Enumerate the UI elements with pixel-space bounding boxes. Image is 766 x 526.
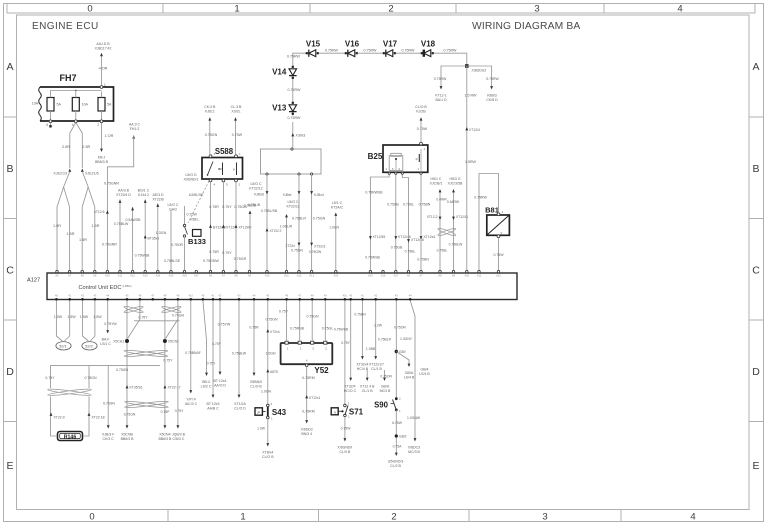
svg-text:V13: V13 [272, 104, 287, 113]
svg-text:A10: A10 [464, 274, 469, 278]
svg-text:o: o [233, 168, 235, 172]
fuse FH7/3 5A [98, 92, 112, 122]
svg-text:BB6/3 B: BB6/3 B [158, 437, 172, 441]
svg-text:CL/1 B: CL/1 B [371, 367, 382, 371]
wire S43 down [257, 419, 274, 459]
svg-text:0.75OR: 0.75OR [380, 375, 392, 379]
wire relay top to V13 [288, 116, 306, 148]
resistor R146 [58, 432, 83, 441]
wire ECU A-pin col 120 [114, 189, 132, 272]
pin FH7 bottom 2 [97, 120, 103, 127]
svg-text:A: A [6, 61, 13, 73]
svg-text:IL75W: IL75W [392, 421, 403, 425]
svg-text:D: D [6, 366, 14, 378]
svg-text:A6: A6 [55, 274, 59, 278]
svg-text:0: 0 [87, 3, 92, 14]
svg-text:0.75BLSE: 0.75BLSE [164, 259, 181, 263]
wire V18 right to junction [434, 49, 467, 67]
wire col 213 BT12x3 [207, 301, 222, 411]
bus to sensor heater [51, 366, 161, 426]
svg-text:XT22/8: XT22/8 [152, 197, 163, 201]
svg-text:A16: A16 [182, 274, 187, 278]
wire to XT22-18 [84, 397, 105, 437]
diode V17 [383, 40, 398, 57]
svg-text:0.75GN: 0.75GN [291, 249, 303, 253]
switch unit S588 [202, 147, 243, 187]
svg-text:kT12:6: kT12:6 [94, 210, 104, 214]
junction XJE21/6 [81, 169, 99, 176]
wire fuse2 splay pair 2.5R [62, 123, 91, 168]
svg-text:C/6/3 C: C/6/3 C [172, 437, 184, 441]
svg-text:KJB:2: KJB:2 [205, 109, 214, 113]
svg-text:0.5AWSB: 0.5AWSB [125, 218, 141, 222]
svg-text:XT23/4 D: XT23/4 D [116, 193, 131, 197]
svg-text:0.75Y: 0.75Y [207, 362, 217, 366]
svg-text:AA/O D: AA/O D [214, 383, 226, 387]
svg-text:0.75Y: 0.75Y [222, 251, 232, 255]
svg-text:52/1: 52/1 [59, 344, 66, 348]
svg-text:V18: V18 [421, 40, 436, 49]
labels around bowtie5 [103, 402, 184, 417]
svg-text:XJBxt: XJBxt [283, 193, 292, 197]
wire FH7 feed up to XJB117 [95, 42, 112, 86]
svg-text:0.75RW: 0.75RW [474, 196, 487, 200]
svg-text:A8T5: A8T5 [270, 370, 278, 374]
wire col 239 XT12A [232, 301, 247, 411]
svg-text:XT22-9: XT22-9 [54, 416, 65, 420]
svg-text:0.75BL/SB: 0.75BL/SB [261, 209, 278, 213]
svg-text:CL/9 B: CL/9 B [340, 450, 351, 454]
wire col 367 XT12/4B [360, 370, 375, 393]
ground 52/2 [82, 342, 97, 350]
wire V15-V16 [319, 49, 345, 54]
svg-text:0.75Y: 0.75Y [138, 316, 148, 320]
svg-text:V14: V14 [272, 68, 287, 77]
svg-text:1.0W: 1.0W [257, 427, 266, 431]
wire V16-V17 [358, 49, 383, 54]
svg-text:A127: A127 [27, 278, 40, 284]
svg-text:0.75GN: 0.75GN [306, 315, 319, 319]
svg-text:XJE21/3: XJE21/3 [53, 172, 67, 176]
svg-text:CL/1 B: CL/1 B [362, 389, 373, 393]
svg-text:0.75WSB: 0.75WSB [365, 256, 380, 260]
svg-text:C: C [752, 265, 760, 277]
svg-text:0.75SL: 0.75SL [403, 203, 414, 207]
svg-text:410: 410 [343, 294, 348, 298]
diode V18 [421, 40, 436, 57]
svg-text:1.2W: 1.2W [374, 324, 383, 328]
svg-text:1: 1 [104, 83, 106, 87]
svg-text:XT22-18: XT22-18 [92, 416, 105, 420]
svg-text:0.75WSB: 0.75WSB [135, 254, 150, 258]
svg-text:10A: 10A [82, 103, 89, 107]
svg-text:0.75SB: 0.75SB [387, 203, 399, 207]
svg-text:KJBx6: KJBx6 [254, 193, 264, 197]
svg-text:GB/2: GB/2 [399, 435, 407, 439]
svg-text:1.5R: 1.5R [91, 224, 99, 228]
svg-text:A11: A11 [284, 274, 289, 278]
svg-text:A10: A10 [265, 274, 270, 278]
svg-text:MC/I B: MC/I B [380, 389, 391, 393]
svg-text:A9: A9 [452, 274, 456, 278]
pin FH7 top [100, 83, 106, 88]
svg-text:0.75W: 0.75W [232, 133, 243, 137]
wire B81 down to ECU [493, 238, 504, 272]
wire col 344 to S71 [334, 301, 349, 405]
svg-text:A10: A10 [105, 274, 110, 278]
svg-text:BB6/3 B: BB6/3 B [95, 160, 109, 164]
wire relay pin down col 267 [248, 175, 282, 271]
valve B81 [485, 206, 509, 238]
wire B25 pin4 down-left col 370 [365, 175, 389, 272]
svg-text:A14: A14 [155, 274, 160, 278]
wire Y52 bottom down [301, 367, 321, 436]
bottom coordinate band [89, 510, 695, 523]
svg-text:IL75GN: IL75GN [103, 402, 115, 406]
svg-text:410: 410 [189, 294, 194, 298]
top coordinate band [7, 3, 755, 14]
svg-text:1.5 RW: 1.5 RW [465, 94, 478, 98]
wire col 268 to S43 [261, 301, 280, 405]
wire lambda pair 2 col 178 [166, 301, 178, 339]
svg-text:1.5RW: 1.5RW [465, 160, 477, 164]
pin FH7 bottom 6 [46, 120, 52, 127]
svg-text:0.75RW: 0.75RW [364, 49, 378, 53]
svg-text:0.75R: 0.75R [209, 250, 219, 254]
svg-text:XJB2DG2: XJB2DG2 [472, 69, 487, 73]
junction BT35x6 col 145 [135, 189, 160, 272]
fuse FH7/2 10A [72, 92, 88, 122]
svg-text:XT12/18: XT12/18 [411, 238, 424, 242]
diode V15 [306, 40, 321, 57]
svg-text:2: 2 [388, 3, 393, 14]
wire fuse3 down 1 OR [95, 123, 114, 164]
svg-text:CK/8 D: CK/8 D [486, 98, 498, 102]
svg-text:A13: A13 [309, 274, 314, 278]
svg-text:1: 1 [234, 3, 239, 14]
svg-text:CL/O B: CL/O B [262, 455, 274, 459]
svg-text:CL/O B: CL/O B [250, 384, 262, 388]
svg-text:XJC/B/1: XJC/B/1 [430, 181, 443, 185]
splice XSCN1 [113, 339, 129, 344]
svg-text:Control Unit EDC: Control Unit EDC [79, 285, 122, 291]
svg-text:IL5/8L/5E: IL5/8L/5E [189, 193, 204, 197]
relay box above ECU [261, 148, 322, 175]
svg-text:A17: A17 [194, 274, 199, 278]
svg-text:A8: A8 [438, 274, 442, 278]
svg-text:ENGINE ECU: ENGINE ECU [32, 21, 99, 32]
wire pair 1.5W to ground 52/2 [80, 301, 102, 342]
svg-text:A8: A8 [81, 274, 85, 278]
svg-text:0.75YW: 0.75YW [218, 323, 231, 327]
fusebox FH7 [32, 73, 114, 121]
terminal XSCNB [121, 425, 135, 441]
svg-text:0.75RW: 0.75RW [288, 88, 302, 92]
svg-text:o: o [416, 157, 418, 161]
svg-text:0.75RW: 0.75RW [402, 49, 416, 53]
wire Y52 pin2 up [290, 301, 305, 342]
svg-text:0.75BLR: 0.75BLR [378, 338, 392, 342]
wire V14-V13 0.75RW [288, 78, 302, 102]
svg-text:A7: A7 [419, 274, 423, 278]
svg-text:0.75RW: 0.75RW [325, 49, 339, 53]
svg-text:4: 4 [677, 3, 682, 14]
wire ECU col 132.6 [125, 207, 141, 271]
svg-text:1.3GNY: 1.3GNY [400, 337, 413, 341]
junction KT12/6 [94, 182, 119, 247]
svg-text:KJ/2B: KJ/2B [416, 109, 426, 113]
svg-text:CL/O D: CL/O D [234, 406, 246, 410]
twisted pair symbol 5 [124, 400, 168, 408]
svg-text:1.0BB: 1.0BB [366, 347, 376, 351]
svg-text:A12: A12 [130, 274, 135, 278]
switch S71 [331, 402, 363, 419]
svg-text:1 OR: 1 OR [105, 134, 114, 138]
svg-text:XT2x4: XT2x4 [270, 330, 280, 334]
svg-text:KJBx4: KJBx4 [314, 193, 324, 197]
svg-text:0.75Y: 0.75Y [175, 409, 185, 413]
wire B25 pin1 down col 421 [417, 175, 435, 272]
svg-text:0.75GN: 0.75GN [265, 318, 278, 322]
wire lambda pair 1 col 127 [126, 301, 128, 427]
svg-text:B81: B81 [485, 206, 499, 215]
diode V13 [272, 102, 297, 115]
wire Y52 pin3 up [306, 301, 319, 342]
svg-text:E: E [6, 460, 13, 472]
svg-text:3: 3 [534, 3, 539, 14]
svg-text:GB/I: GB/I [399, 350, 406, 354]
svg-text:KT2A/C: KT2A/C [331, 205, 344, 209]
svg-text:0.75GR: 0.75GR [234, 257, 247, 261]
stub reference 1.0BLR col 286 [280, 214, 293, 271]
svg-text:0.75GN: 0.75GN [84, 376, 97, 380]
junction XT35/16 [126, 385, 143, 390]
svg-text:A9: A9 [248, 274, 252, 278]
svg-text:0.75GNW: 0.75GNW [203, 259, 219, 263]
svg-text:A16: A16 [381, 274, 386, 278]
svg-text:3: 3 [542, 511, 547, 522]
svg-text:BN/3 4: BN/3 4 [301, 432, 312, 436]
svg-text:5A: 5A [57, 103, 62, 107]
svg-text:B: B [6, 163, 13, 175]
right row letters [749, 61, 764, 472]
svg-text:A6: A6 [209, 274, 213, 278]
diode V14 [272, 66, 297, 79]
svg-text:0.75GL: 0.75GL [322, 327, 334, 331]
svg-text:IL75RM: IL75RM [302, 410, 314, 414]
svg-text:1.5W: 1.5W [67, 315, 76, 319]
svg-text:0.75OR: 0.75OR [394, 326, 406, 330]
svg-text:52/2: 52/2 [85, 344, 92, 348]
svg-text:GA/2: GA/2 [169, 207, 177, 211]
svg-text:0.75RW: 0.75RW [288, 116, 302, 120]
svg-text:0.75GNR: 0.75GNR [104, 182, 119, 186]
svg-text:0.75RSB: 0.75RSB [290, 327, 305, 331]
wire relay pin down col 311 [309, 175, 326, 271]
svg-text:S43: S43 [272, 408, 287, 417]
svg-text:A17: A17 [393, 274, 398, 278]
svg-text:5A: 5A [107, 103, 112, 107]
wire V13 to relay [292, 110, 294, 116]
switch S90 [374, 397, 401, 414]
svg-text:1.5W: 1.5W [93, 315, 102, 319]
terminal stub below fuse 1 [49, 123, 51, 128]
svg-text:BB6/3 B: BB6/3 B [121, 437, 135, 441]
svg-text:XJE21/6: XJE21/6 [85, 172, 99, 176]
svg-text:0.75GN: 0.75GN [205, 133, 218, 137]
svg-text:B25: B25 [368, 152, 383, 161]
svg-text:0.75BN: 0.75BN [417, 258, 429, 262]
svg-text:0.75RW: 0.75RW [287, 55, 301, 59]
wire Y52 pin1 up [279, 301, 289, 342]
svg-text:6: 6 [46, 123, 48, 127]
svg-text:1.5W: 1.5W [80, 315, 89, 319]
svg-text:A: A [752, 61, 759, 73]
svg-text:KT35/16: KT35/16 [130, 386, 143, 390]
svg-text:S588: S588 [215, 147, 234, 156]
svg-text:4: 4 [690, 511, 695, 522]
wire col 220 BT12x4 [214, 301, 231, 388]
svg-text:0.75WSB: 0.75WSB [334, 328, 349, 332]
wire lambda pair 2 col 165 [164, 301, 166, 427]
svg-text:Y52: Y52 [314, 366, 329, 375]
svg-text:0.75BL: 0.75BL [405, 250, 416, 254]
A127 top pins [55, 270, 501, 277]
svg-text:X5CN2: X5CN2 [168, 340, 179, 344]
svg-text:1.0GN: 1.0GN [329, 226, 339, 230]
svg-text:0.75A: 0.75A [393, 445, 403, 449]
svg-text:XT22/.2: XT22/.2 [270, 229, 282, 233]
wire col 375 XT12x17 [366, 301, 384, 371]
svg-text:D: D [752, 366, 760, 378]
svg-text:0.75BLW: 0.75BLW [114, 222, 129, 226]
svg-text:A7: A7 [222, 274, 226, 278]
svg-text:n: n [334, 411, 336, 415]
svg-text:XJB117:42: XJB117:42 [95, 46, 112, 50]
svg-text:CL/2 B: CL/2 B [390, 464, 401, 468]
wire col 415 diag [400, 301, 421, 454]
svg-text:0.75BN: 0.75BN [419, 203, 431, 207]
svg-text:0.75P: 0.75P [161, 410, 171, 414]
svg-text:V15: V15 [306, 40, 321, 49]
wire pair 1.5W to ground 52/1 [54, 301, 76, 342]
svg-text:XT12x4: XT12x4 [424, 235, 436, 239]
svg-text:0.75GN: 0.75GN [313, 217, 326, 221]
svg-text:FH1:2: FH1:2 [130, 127, 140, 131]
main wire 1.5RW down to ECU [465, 66, 481, 271]
svg-text:0.75RWSB: 0.75RWSB [365, 191, 383, 195]
svg-text:LS/4 B: LS/4 B [404, 375, 415, 379]
svg-text:LS/4 B: LS/4 B [419, 372, 430, 376]
sensor B25 [368, 142, 428, 174]
wire V14 up to V15 [287, 53, 306, 66]
junction node top right [465, 64, 469, 68]
svg-text:1.0BL/R: 1.0BL/R [280, 225, 293, 229]
svg-text:0.75RW: 0.75RW [486, 77, 499, 81]
svg-text:1.3GN: 1.3GN [156, 231, 167, 235]
svg-text:IL75RM: IL75RM [302, 376, 314, 380]
svg-text:A6: A6 [407, 274, 411, 278]
svg-text:A8: A8 [234, 274, 238, 278]
svg-text:X9/2L: X9/2L [231, 109, 240, 113]
svg-text:2: 2 [97, 123, 99, 127]
wire FH7 internal bus [51, 91, 102, 92]
svg-text:0.75BLW: 0.75BLW [232, 352, 247, 356]
svg-text:0.64RW: 0.64RW [447, 200, 460, 204]
svg-text:AA/B C: AA/B C [207, 406, 219, 410]
svg-text:1.0GN: 1.0GN [265, 352, 276, 356]
svg-text:1: 1 [240, 511, 245, 522]
svg-text:XT12/4: XT12/4 [469, 128, 480, 132]
svg-text:1.0BL/B: 1.0BL/B [244, 204, 257, 208]
wire splits to ECU pins 1.5R x4 [53, 172, 100, 272]
svg-text:XT12x: XT12x [226, 226, 236, 230]
svg-text:A11: A11 [118, 274, 123, 278]
twisted pair symbol 2 [161, 305, 181, 313]
wire S588 pin2 down [203, 182, 252, 271]
twisted pair symbol 4 [47, 388, 91, 396]
svg-text:0.75BN: 0.75BN [354, 313, 366, 317]
pressure switch S43 [255, 402, 287, 421]
wire S588 pin5 down [222, 182, 236, 271]
svg-text:0.75BLW: 0.75BLW [449, 243, 463, 247]
svg-text:KT12x1: KT12x1 [309, 396, 321, 400]
svg-text:0.75GB: 0.75GB [391, 246, 403, 250]
twisted pair symbol 3 [124, 349, 168, 357]
svg-text:KT22/11: KT22/11 [287, 204, 300, 208]
svg-text:IAC/3 C: IAC/3 C [185, 402, 198, 406]
wire ECU col 157.8 [152, 193, 166, 271]
stub reference col 335 [329, 201, 343, 271]
svg-text:0.75Y: 0.75Y [163, 359, 173, 363]
svg-text:0.75OR: 0.75OR [171, 243, 183, 247]
svg-text:2.5R: 2.5R [82, 145, 90, 149]
reference AA/3 C FH1:2 [107, 123, 140, 272]
wire col 350 XT32F [341, 301, 357, 393]
wire lambda pair 1 col 140 [128, 301, 140, 339]
svg-text:XT22x1: XT22x1 [314, 245, 326, 249]
wire col 362 XT32x4 [354, 301, 368, 371]
svg-text:2: 2 [391, 511, 396, 522]
valve block Y52 [281, 341, 333, 375]
splice XSCN2 [163, 339, 179, 344]
svg-text:XT12/45: XT12/45 [373, 235, 386, 239]
svg-text:A15: A15 [368, 274, 373, 278]
svg-text:C: C [6, 265, 14, 277]
svg-text:A14: A14 [333, 274, 338, 278]
fuse FH7/1 5A [47, 92, 61, 122]
svg-text:0.75R: 0.75R [249, 326, 259, 330]
svg-text:0.75W: 0.75W [417, 127, 428, 131]
labels above bowtie4 [45, 376, 97, 380]
svg-text:0.75RW: 0.75RW [434, 77, 447, 81]
twisted pair symbol HS [437, 227, 463, 246]
svg-text:0.75GNR: 0.75GNR [102, 243, 117, 247]
svg-text:X5CA1: X5CA1 [113, 340, 124, 344]
wire col 203 BB/4 LS/2 [201, 301, 217, 389]
wire V17-V18 [396, 49, 421, 54]
svg-text:10A: 10A [32, 102, 39, 106]
wire ECU col 171 [164, 203, 181, 271]
wire S588 pin3 up CK/3 B [204, 105, 217, 156]
svg-text:S71: S71 [349, 408, 364, 417]
wire col 384 GBA MCI [380, 370, 391, 393]
svg-text:0.75W: 0.75W [187, 213, 198, 217]
svg-text:0: 0 [89, 511, 94, 522]
wire B81 feed bracket [474, 174, 498, 272]
svg-text:0.75Y: 0.75Y [45, 376, 55, 380]
svg-text:(LBBA): (LBBA) [123, 284, 132, 288]
